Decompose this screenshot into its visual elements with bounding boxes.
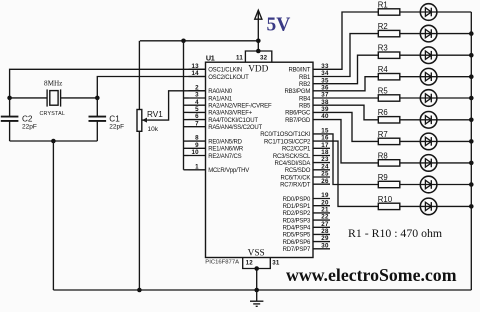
svg-text:R4: R4 <box>378 65 389 74</box>
wire bracket stub to pin row 7 <box>184 119 189 121</box>
pin 5 RA3/AN3/VREF+ <box>189 106 253 117</box>
wire R4 to LED D4 <box>400 76 421 78</box>
junction VSS on ground bus <box>254 288 259 293</box>
wire LED D1 to cathode rail <box>437 11 471 13</box>
pin 13 OSC1/CLKIN <box>189 63 243 74</box>
wire pin 16 to R10 <box>330 141 378 206</box>
wire crystal ground drop <box>52 141 54 290</box>
svg-text:RB3/PGM: RB3/PGM <box>284 89 310 95</box>
pin 35 RB2 <box>299 77 330 88</box>
svg-text:MCLR/Vpp/THV: MCLR/Vpp/THV <box>208 168 249 174</box>
LED D6 <box>420 112 437 129</box>
wire LED cathode rail vertical <box>470 12 472 290</box>
svg-text:VDD: VDD <box>248 64 268 74</box>
wire bracket stub to pin row 10 <box>184 140 189 142</box>
pin 16 RC1/T1OSI/CCP2 <box>264 135 330 146</box>
junction rail row 10 <box>469 204 474 209</box>
svg-text:RC5/SDO: RC5/SDO <box>285 168 311 174</box>
LED D5 <box>420 90 437 107</box>
svg-text:33: 33 <box>321 63 329 70</box>
resistor R4 470 ohm <box>378 65 400 80</box>
crystal X1 8MHz <box>39 80 65 118</box>
wire pin 15 to R9 <box>330 134 378 185</box>
svg-text:RA4/T0CKI/C1OUT: RA4/T0CKI/C1OUT <box>208 118 258 124</box>
svg-text:8: 8 <box>195 135 199 142</box>
svg-text:RB4: RB4 <box>299 96 311 102</box>
pin 4 RA2/AN2/VREF-/CVREF <box>189 99 272 110</box>
wire R10 to LED D10 <box>400 205 421 207</box>
resistor R7 470 ohm <box>378 130 400 145</box>
svg-text:7: 7 <box>195 120 199 127</box>
LED D9 <box>420 176 437 193</box>
svg-text:6: 6 <box>195 113 199 120</box>
pin 36 RB3/PGM <box>284 84 330 95</box>
svg-text:RB6/PGC: RB6/PGC <box>285 111 311 117</box>
svg-text:31: 31 <box>272 259 280 266</box>
wire pin 38 to R6 <box>330 105 378 120</box>
svg-text:25: 25 <box>321 171 329 178</box>
svg-text:R7: R7 <box>378 130 388 139</box>
svg-text:R3: R3 <box>378 44 388 53</box>
wire R7 to LED D7 <box>400 140 421 142</box>
svg-text:24: 24 <box>321 163 329 170</box>
wire R2 to LED D2 <box>400 33 421 35</box>
svg-text:RD5/PSP5: RD5/PSP5 <box>283 233 311 239</box>
LED D2 <box>420 25 437 42</box>
junction at pull-up bracket top <box>181 39 186 44</box>
junction rail row 8 <box>469 161 474 166</box>
svg-text:11: 11 <box>236 55 243 62</box>
svg-text:8MHz: 8MHz <box>44 80 62 88</box>
wire pin 34 to R2 <box>330 34 378 77</box>
wire OSC2 pin14 to crystal right node <box>97 77 205 98</box>
svg-text:35: 35 <box>321 77 329 84</box>
svg-text:16: 16 <box>321 135 329 142</box>
node A junction left of crystal <box>7 96 12 101</box>
potentiometer RV1 10k <box>137 41 163 290</box>
svg-text:26: 26 <box>321 178 329 185</box>
pin 27 RD4/PSP4 <box>283 221 330 232</box>
pin 14 OSC2/CLKOUT <box>189 70 250 81</box>
resistor R3 470 ohm <box>378 44 400 59</box>
pin 20 RD1/PSP1 <box>283 199 330 210</box>
svg-text:17: 17 <box>321 142 329 149</box>
wire LED D6 to cathode rail <box>437 119 471 121</box>
svg-text:RC1/T1OSI/CCP2: RC1/T1OSI/CCP2 <box>264 139 311 145</box>
wire R3 to LED D3 <box>400 54 421 56</box>
svg-text:RC7/RX/DT: RC7/RX/DT <box>280 183 311 189</box>
pin 29 RD6/PSP6 <box>283 235 330 246</box>
capacitor C1 22pF <box>89 98 125 141</box>
svg-text:RA2/AN2/VREF-/CVREF: RA2/AN2/VREF-/CVREF <box>208 104 272 110</box>
resistor R9 470 ohm <box>378 173 400 188</box>
wire RV1 wiper to RA0 pin 2 <box>148 91 206 120</box>
pin 21 RD2/PSP2 <box>283 207 330 218</box>
svg-text:10k: 10k <box>148 126 159 133</box>
svg-text:PIC16F877A: PIC16F877A <box>205 260 239 266</box>
pin 23 RC4/SDI/SDA <box>274 156 330 167</box>
svg-text:12: 12 <box>246 259 254 266</box>
VSS ground pins 12/31 bracket <box>243 258 280 269</box>
svg-text:39: 39 <box>321 106 329 113</box>
junction rail row 4 <box>469 74 474 79</box>
resistor R5 470 ohm <box>378 86 400 101</box>
svg-text:RA3/AN3/VREF+: RA3/AN3/VREF+ <box>208 111 253 117</box>
wire R5 to LED D5 <box>400 97 421 99</box>
svg-text:27: 27 <box>321 221 329 228</box>
svg-text:RC4/SDI/SDA: RC4/SDI/SDA <box>274 161 310 167</box>
resistor R8 470 ohm <box>378 151 400 166</box>
wire pin 33 to R1 <box>330 12 378 69</box>
svg-text:RB7/PGD: RB7/PGD <box>285 118 311 124</box>
svg-text:38: 38 <box>321 99 329 106</box>
wire LED D7 to cathode rail <box>437 140 471 142</box>
junction rail row 3 <box>469 53 474 58</box>
wire pin 39 to R7 <box>330 112 378 141</box>
svg-text:R5: R5 <box>378 86 389 95</box>
svg-text:4: 4 <box>195 99 199 106</box>
svg-text:RD6/PSP6: RD6/PSP6 <box>283 240 311 246</box>
svg-text:RE1/AN6/WR: RE1/AN6/WR <box>208 147 244 153</box>
capacitor C2 22pF <box>1 98 37 141</box>
junction at VDD bracket top <box>256 49 261 54</box>
LED D3 <box>420 47 437 64</box>
svg-text:RB2: RB2 <box>299 82 311 88</box>
resistor R6 470 ohm <box>378 108 400 123</box>
5V power terminal arrow <box>255 10 262 51</box>
svg-text:RB5: RB5 <box>299 104 311 110</box>
svg-text:R1: R1 <box>378 0 388 9</box>
svg-text:RC3/SCK/SCL: RC3/SCK/SCL <box>273 154 311 160</box>
svg-text:U1: U1 <box>206 53 215 62</box>
pin 6 RA4/T0CKI/C1OUT <box>189 113 259 124</box>
resistor R1 470 ohm <box>378 0 400 15</box>
wire LED D8 to cathode rail <box>437 162 471 164</box>
wire bracket stub to pin row 14 <box>184 169 189 171</box>
junction rail row 6 <box>469 118 474 123</box>
pin 24 RC5/SDO <box>285 163 330 174</box>
svg-text:29: 29 <box>321 235 329 242</box>
junction rail row 7 <box>469 139 474 144</box>
svg-text:10: 10 <box>192 149 200 156</box>
pin 1 MCLR/Vpp/THV <box>189 163 250 174</box>
svg-text:22: 22 <box>321 214 329 221</box>
VDD power pins 11/32 bracket <box>236 51 272 62</box>
wire R1 to LED D1 <box>400 11 421 13</box>
svg-text:5: 5 <box>195 106 199 113</box>
svg-text:RA0/AN0: RA0/AN0 <box>208 89 233 95</box>
wire LED D4 to cathode rail <box>437 76 471 78</box>
svg-text:RA1/AN1: RA1/AN1 <box>208 96 233 102</box>
ground symbol <box>250 290 263 306</box>
svg-text:OSC2/CLKOUT: OSC2/CLKOUT <box>208 75 249 81</box>
svg-text:C1: C1 <box>109 114 120 123</box>
svg-text:5V: 5V <box>267 15 291 36</box>
svg-text:15: 15 <box>321 128 329 135</box>
svg-text:CRYSTAL: CRYSTAL <box>39 111 65 117</box>
svg-text:RD7/PSP7: RD7/PSP7 <box>283 247 311 253</box>
wire bracket stub to pin row 8 <box>184 126 189 128</box>
pin 30 RD7/PSP7 <box>283 242 330 253</box>
wire pin 36 to R4 <box>330 77 378 91</box>
LED D8 <box>420 155 437 172</box>
IC U1 PIC16F877A outline <box>205 53 313 265</box>
pin 26 RC7/RX/DT <box>280 178 330 189</box>
svg-text:RD4/PSP4: RD4/PSP4 <box>283 226 311 232</box>
svg-text:34: 34 <box>321 70 329 77</box>
junction rail row 5 <box>469 96 474 101</box>
pin 8 RE0/AN5/RD <box>189 135 243 146</box>
junction on 5V stem <box>256 39 261 44</box>
wire bracket stub to pin row 5 <box>184 104 189 106</box>
svg-text:RA5/AN4/SS/C2OUT: RA5/AN4/SS/C2OUT <box>208 125 262 131</box>
junction crystal ground drop <box>51 139 56 144</box>
svg-text:30: 30 <box>321 242 329 249</box>
svg-text:R10: R10 <box>378 195 393 204</box>
wire LED D3 to cathode rail <box>437 54 471 56</box>
svg-text:VSS: VSS <box>248 248 265 258</box>
wire LED D5 to cathode rail <box>437 97 471 99</box>
pin 18 RC3/SCK/SCL <box>273 149 330 160</box>
pin 15 RC0/T1OSO/T1CKI <box>260 128 330 139</box>
wire OSC1 pin13 to crystal left node <box>10 69 206 98</box>
svg-text:R8: R8 <box>378 151 388 160</box>
svg-text:R2: R2 <box>378 22 388 31</box>
svg-text:R6: R6 <box>378 108 388 117</box>
svg-text:RD1/PSP1: RD1/PSP1 <box>283 204 311 210</box>
resistor R10 470 ohm <box>378 195 400 210</box>
svg-text:RC6/TX/CK: RC6/TX/CK <box>280 175 310 181</box>
wire LED D2 to cathode rail <box>437 33 471 35</box>
svg-text:22pF: 22pF <box>22 124 37 131</box>
svg-text:RB1: RB1 <box>299 75 311 81</box>
wire capacitor bottoms link <box>10 140 98 142</box>
svg-text:RB0/INT: RB0/INT <box>288 68 310 74</box>
junction VSS bracket bottom <box>254 266 259 271</box>
svg-text:3: 3 <box>195 92 199 99</box>
svg-text:28: 28 <box>321 228 329 235</box>
resistor R2 470 ohm <box>378 22 400 37</box>
node B junction right of crystal <box>95 96 100 101</box>
pin 17 RC2/CCP1 <box>282 142 330 153</box>
svg-text:37: 37 <box>321 92 329 99</box>
svg-text:RD0/PSP0: RD0/PSP0 <box>283 197 311 203</box>
svg-text:20: 20 <box>321 199 329 206</box>
junction rail row 2 <box>469 31 474 36</box>
wire pin 35 to R3 <box>330 55 378 83</box>
svg-text:22pF: 22pF <box>109 124 124 131</box>
pin 40 RB7/PGD <box>285 113 330 124</box>
svg-text:R9: R9 <box>378 173 388 182</box>
pin 9 RE1/AN6/WR <box>189 142 244 153</box>
wire VSS to ground <box>256 269 258 291</box>
pin 3 RA1/AN1 <box>189 92 233 103</box>
pin 7 RA5/AN4/SS/C2OUT <box>189 120 263 131</box>
wire pull-up bracket vertical (5V to RA1-RA5, RE0-RE2, MCLR) <box>183 41 185 170</box>
svg-text:OSC1/CLKIN: OSC1/CLKIN <box>208 68 242 74</box>
svg-text:RD2/PSP2: RD2/PSP2 <box>283 211 311 217</box>
pin 33 RB0/INT <box>288 63 330 74</box>
pin 2 RA0/AN0 <box>189 84 233 95</box>
wire bracket stub to pin row 6 <box>184 111 189 113</box>
svg-text:32: 32 <box>260 55 268 62</box>
svg-text:40: 40 <box>321 113 329 120</box>
svg-text:RV1: RV1 <box>147 110 163 119</box>
pin 28 RD5/PSP5 <box>283 228 330 239</box>
svg-text:RE2/AN7/CS: RE2/AN7/CS <box>208 154 241 160</box>
wire R6 to LED D6 <box>400 119 421 121</box>
svg-text:RE0/AN5/RD: RE0/AN5/RD <box>208 139 242 145</box>
svg-text:21: 21 <box>321 207 329 214</box>
wire bracket stub to pin row 12 <box>184 155 189 157</box>
LED D7 <box>420 133 437 150</box>
wire bracket stub to pin row 4 <box>184 97 189 99</box>
svg-text:1: 1 <box>195 163 199 170</box>
pin 19 RD0/PSP0 <box>283 192 330 203</box>
svg-text:C2: C2 <box>22 114 33 123</box>
pin 10 RE2/AN7/CS <box>189 149 242 160</box>
LED D1 <box>420 4 437 21</box>
wire LED D10 to cathode rail <box>437 205 471 207</box>
wire pin 40 to R8 <box>330 120 378 163</box>
svg-text:RC2/CCP1: RC2/CCP1 <box>282 147 311 153</box>
svg-text:R1 - R10 : 470 ohm: R1 - R10 : 470 ohm <box>348 226 442 240</box>
svg-text:www.electroSome.com: www.electroSome.com <box>286 265 457 285</box>
wire R8 to LED D8 <box>400 162 421 164</box>
pin 34 RB1 <box>299 70 330 81</box>
junction RV1 bottom on ground wire <box>137 288 142 293</box>
svg-text:23: 23 <box>321 156 329 163</box>
pin 37 RB4 <box>299 92 330 103</box>
pin 25 RC6/TX/CK <box>280 171 330 182</box>
wire pin 37 to R5 <box>330 97 378 99</box>
wire 5V rail to RV1 and pull-up bracket <box>140 40 258 42</box>
wire LED D9 to cathode rail <box>437 184 471 186</box>
pin 22 RD3/PSP3 <box>283 214 330 225</box>
svg-text:19: 19 <box>321 192 329 199</box>
wire R9 to LED D9 <box>400 184 421 186</box>
LED D4 <box>420 68 437 85</box>
wire bottom ground bus <box>53 289 471 291</box>
pin 39 RB6/PGC <box>285 106 330 117</box>
svg-text:RC0/T1OSO/T1CKI: RC0/T1OSO/T1CKI <box>260 132 310 138</box>
svg-text:RD3/PSP3: RD3/PSP3 <box>283 218 311 224</box>
svg-text:9: 9 <box>195 142 199 149</box>
pin 38 RB5 <box>299 99 330 110</box>
svg-text:18: 18 <box>321 149 329 156</box>
wire bracket stub to pin row 11 <box>184 147 189 149</box>
wire crystal row <box>10 97 48 99</box>
svg-text:36: 36 <box>321 84 329 91</box>
junction rail row 9 <box>469 182 474 187</box>
LED D10 <box>420 198 437 215</box>
